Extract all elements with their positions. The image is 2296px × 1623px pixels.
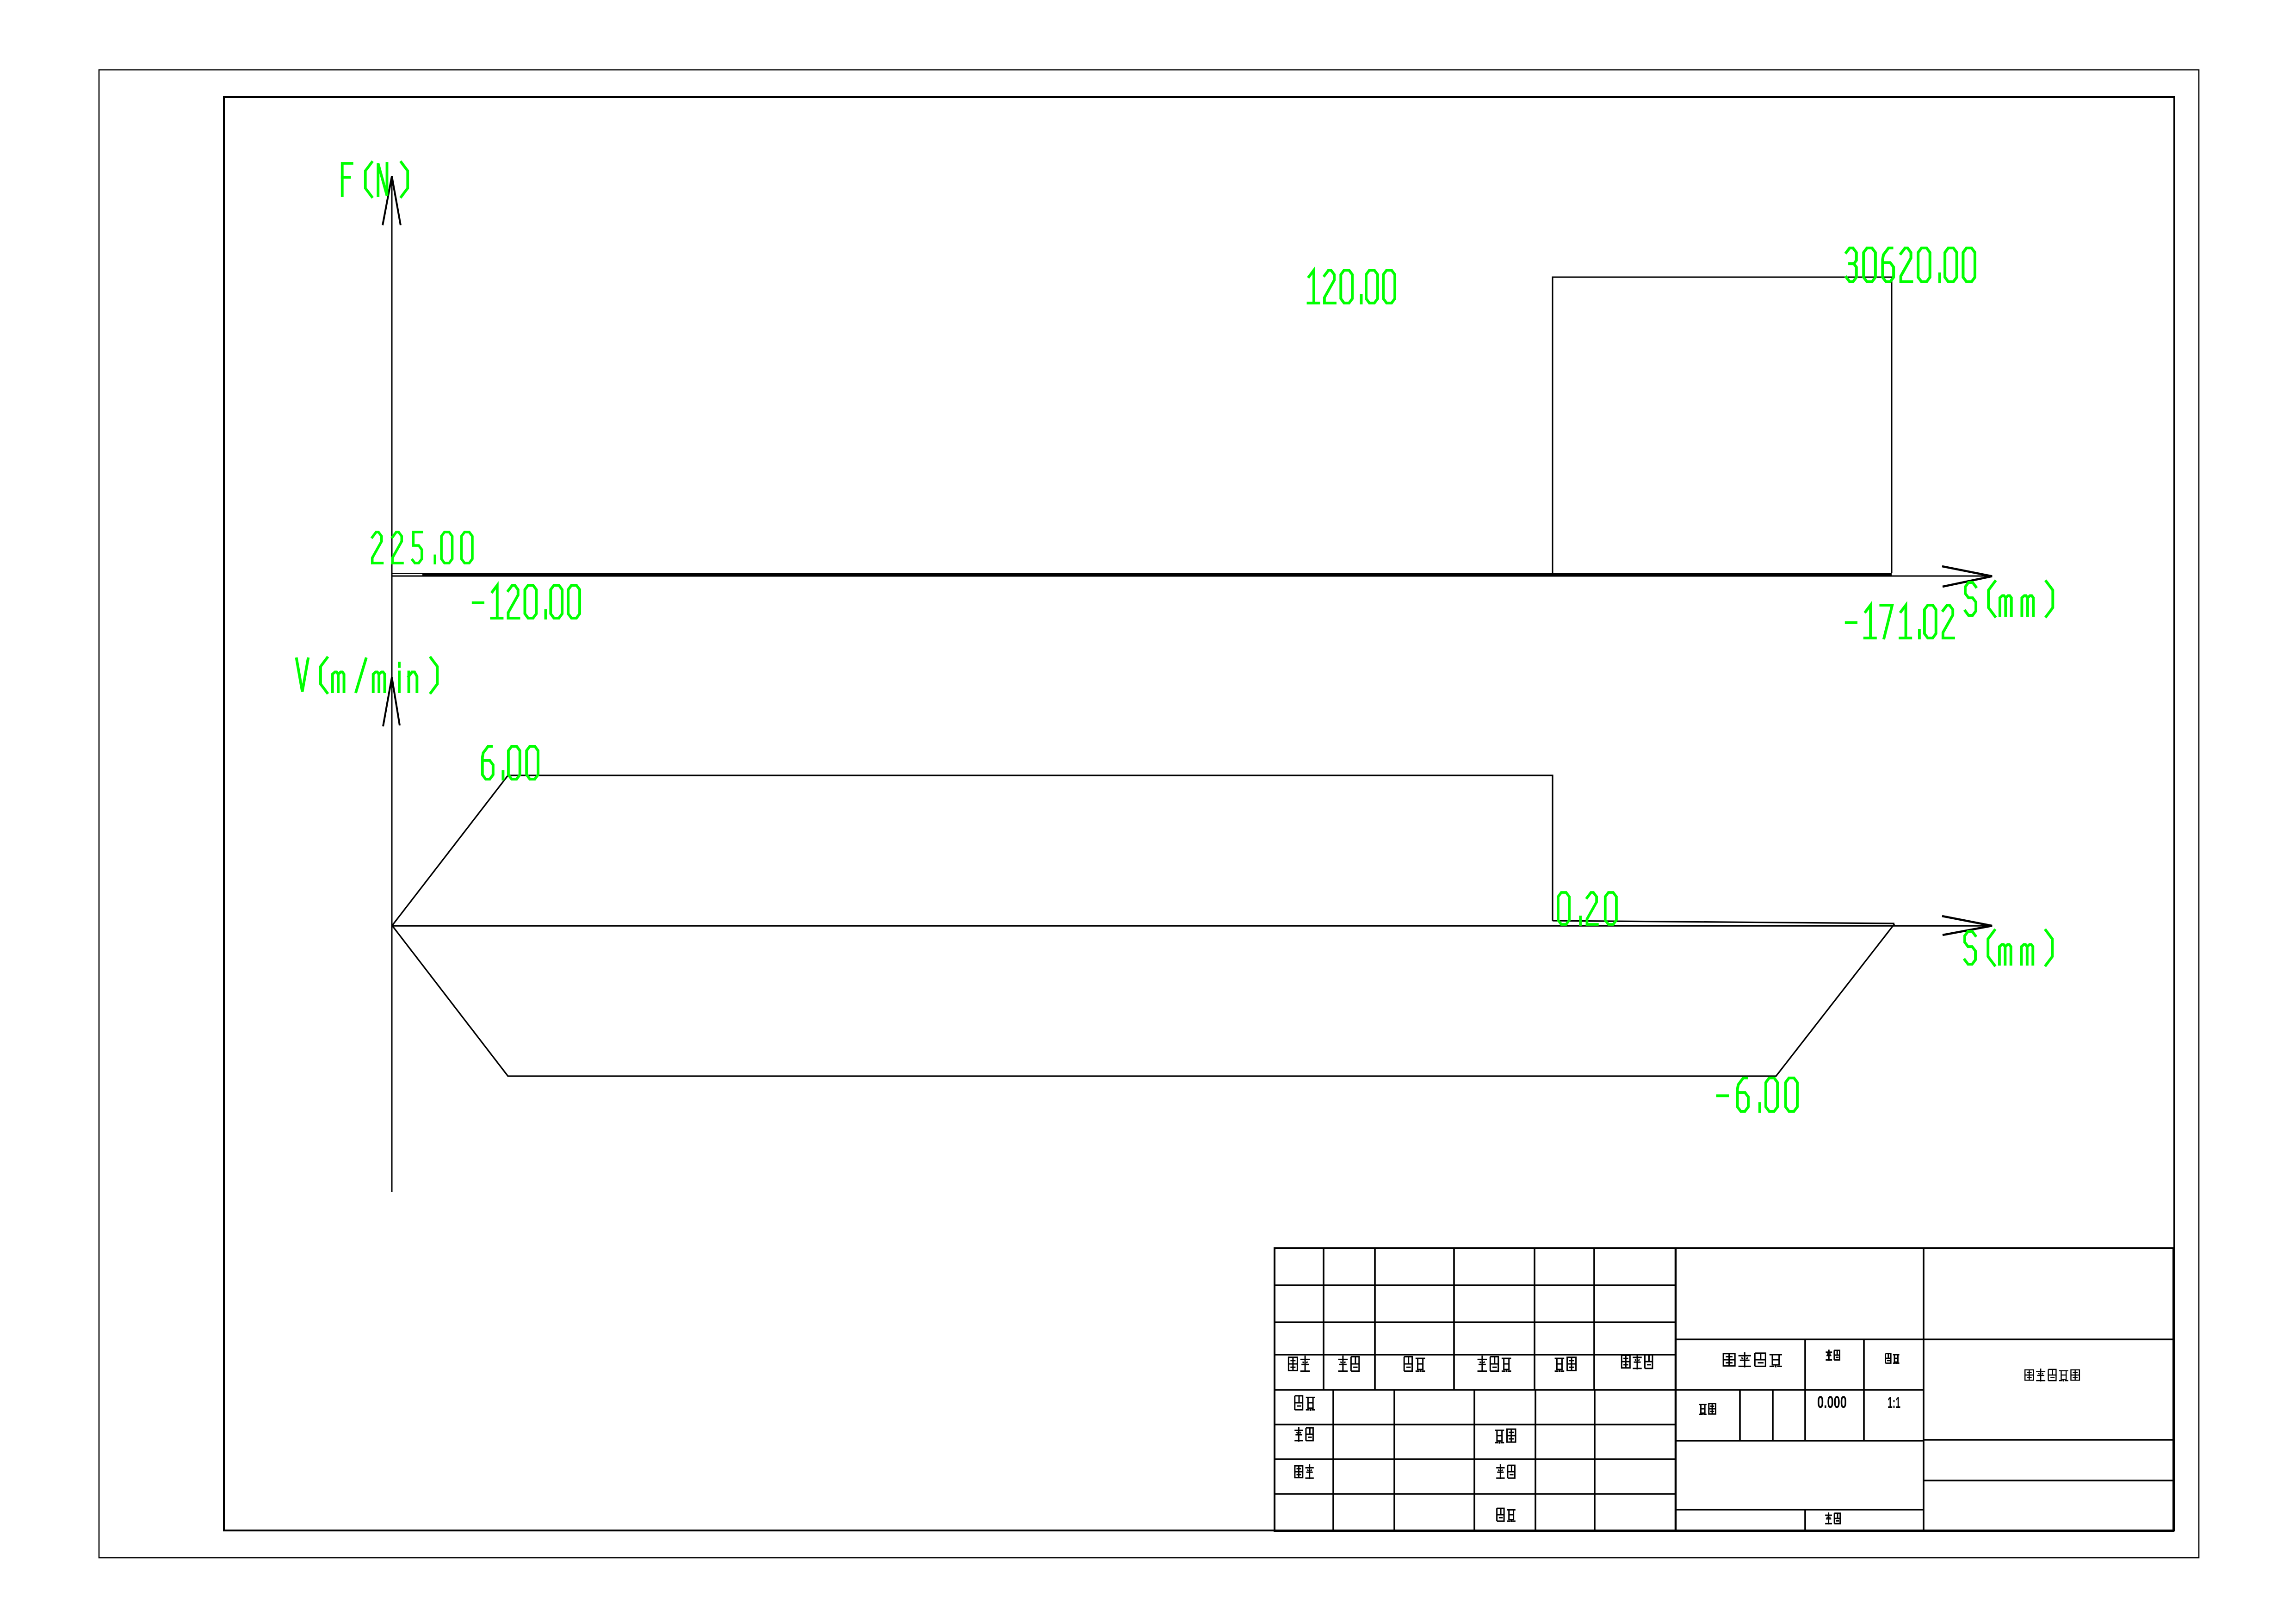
- label -171.02: [1846, 605, 1954, 638]
- table text shenhe: [1496, 1464, 1515, 1479]
- F curve pulse rectangle 30620: [1553, 277, 1892, 575]
- label 6.00: [483, 746, 538, 779]
- inner border frame: [224, 97, 2174, 1530]
- F curve thick baseline bar: [422, 573, 1892, 577]
- V chart S axis arrowhead: [1942, 916, 1992, 935]
- title block grid lines: [1275, 1248, 2173, 1531]
- V curve forward stroke trapezoid: [392, 775, 1553, 925]
- V curve 0.20 creep segment: [1553, 921, 1894, 923]
- table text zhuguan: [1295, 1464, 1314, 1479]
- F chart S axis arrowhead: [1942, 566, 1992, 587]
- label F(N): [342, 162, 408, 197]
- table text pizhun: [1497, 1508, 1516, 1522]
- table text nianyueri: [1621, 1354, 1652, 1369]
- label S(mm) lower: [1965, 930, 2052, 966]
- table text qianming: [1555, 1357, 1576, 1372]
- V curve return stroke trapezoid: [392, 924, 1894, 1076]
- F chart S axis: [392, 576, 1989, 577]
- table text shuliang: [1699, 1404, 1716, 1415]
- F axis vertical line: [391, 176, 393, 1192]
- F axis arrowhead: [383, 176, 401, 225]
- table text chushu: [1338, 1356, 1359, 1372]
- label -120.00: [473, 585, 580, 618]
- table text bili: [1886, 1354, 1900, 1364]
- label 120.00: [1308, 270, 1395, 303]
- V axis arrowhead: [383, 677, 400, 726]
- table text genggaihao: [1478, 1356, 1511, 1372]
- svg-text:0.000: 0.000: [1817, 1393, 1847, 1412]
- label V(m/min): [297, 658, 437, 693]
- label 30620.00: [1846, 248, 1975, 282]
- table text zhongliang: [1826, 1350, 1839, 1361]
- table text banben: [1825, 1512, 1840, 1524]
- table text sheji: [1295, 1396, 1315, 1411]
- F curve 225 segment: [392, 573, 425, 574]
- label 0.20: [1558, 892, 1616, 924]
- table text jiaohe: [1294, 1427, 1313, 1442]
- table text fenqu: [1404, 1357, 1425, 1372]
- label 225.00: [372, 532, 472, 563]
- table text gongyi: [1495, 1429, 1516, 1444]
- V chart S axis: [392, 925, 1989, 926]
- label S(mm) upper: [1965, 582, 2053, 617]
- table text fuzaixunhuantu: [2025, 1369, 2079, 1381]
- label -6.00: [1718, 1078, 1797, 1111]
- table text biaoji: [1288, 1356, 1310, 1372]
- table text jieduanbiaoji: [1723, 1352, 1782, 1368]
- title block outline: [1275, 1248, 2173, 1531]
- svg-text:1:1: 1:1: [1888, 1394, 1900, 1411]
